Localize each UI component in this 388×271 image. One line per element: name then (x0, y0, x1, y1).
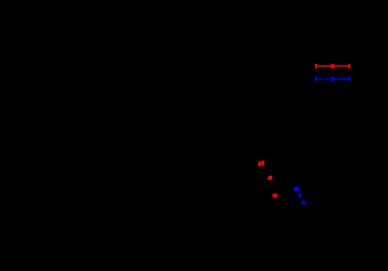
red data point 1 (258, 161, 264, 166)
blue data point 2 (298, 193, 302, 198)
legend red errorbar sample (316, 64, 349, 69)
red data point 3 (272, 194, 278, 198)
legend blue dashed errorbar sample (316, 77, 349, 81)
red data point 2 (267, 176, 272, 180)
blue data point 3 (301, 201, 305, 205)
blue data point 1 (294, 187, 300, 192)
